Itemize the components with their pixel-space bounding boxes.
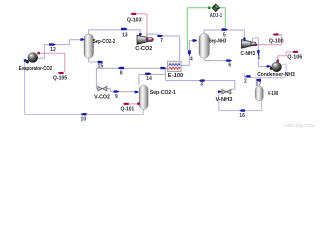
vessel Sep-CO2-1 <box>139 85 148 109</box>
arrow stream 4 adj attach <box>188 50 191 55</box>
node ADJ-1 left connection dot <box>208 7 211 10</box>
arrow stream 4 inlet port Sep-NH3 <box>192 39 197 41</box>
arrow energy Q-101 <box>123 103 129 105</box>
energy connector dot Condenser-NH3 <box>276 60 279 63</box>
wire stream 14 Sep-CO2-1 to E-100 <box>139 68 166 85</box>
wire stream 4 E-100 to Sep-NH3 <box>181 41 193 66</box>
arrow stream 14 inlet port E-100 <box>160 67 166 69</box>
svg-text:7: 7 <box>160 38 163 44</box>
compressor C-CO2 <box>137 35 154 44</box>
arrow stream 5 inlet C-NH3 <box>243 38 245 42</box>
svg-text:17: 17 <box>256 81 262 87</box>
wire stream 9 V-CO2 to Sep-CO2-1 <box>107 89 135 92</box>
arrow energy Q-103 <box>130 13 136 15</box>
heat exchanger E-100 <box>168 61 182 71</box>
arrow energy Q-100 <box>273 33 279 35</box>
svg-text:13: 13 <box>122 33 128 39</box>
svg-text:14: 14 <box>146 76 152 82</box>
svg-text:Sep-NH3: Sep-NH3 <box>209 38 226 44</box>
wire stream 15 Sep-CO2-2 bottom product <box>89 58 99 62</box>
valve V-NH3 <box>222 90 231 95</box>
svg-text:10: 10 <box>81 116 87 122</box>
arrow stream 14 <box>145 73 151 75</box>
arrow stream 3 <box>199 79 205 81</box>
arrow energy Q-106 <box>292 51 298 53</box>
arrow stream 16 <box>239 109 245 111</box>
svg-text:E-100: E-100 <box>168 73 184 79</box>
arrow stream 5 adj attach <box>222 28 228 31</box>
svg-text:5: 5 <box>223 33 226 39</box>
svg-text:16: 16 <box>239 113 245 119</box>
svg-text:Sep-CO2-2: Sep-CO2-2 <box>93 39 116 45</box>
wire stream 1 C-NH3 to Condenser-NH3 <box>253 38 267 67</box>
svg-text:C-NH3: C-NH3 <box>241 51 256 57</box>
vessel V-100 <box>255 86 263 101</box>
energy stream Q-106 line <box>278 52 292 60</box>
arrow stream 8 <box>118 67 124 69</box>
wire stream 16 V-100 to V-NH3 <box>219 92 262 111</box>
arrow stream 13 inlet C-CO2 <box>139 33 141 37</box>
energy connector dot C-CO2 <box>146 38 149 41</box>
wire stream 10 Sep-CO2-1 to Evaporator-CO2 <box>25 61 144 115</box>
wire stream 8 E-100 to V-CO2 <box>96 68 167 88</box>
arrow stream 10 inlet Evaporator-CO2 <box>24 59 28 61</box>
arrow stream 13 <box>121 28 128 30</box>
logical operator ADJ-1 diamond icon <box>212 4 220 12</box>
condenser sphere Condenser-NH3 <box>270 62 282 72</box>
svg-text:V-NH3: V-NH3 <box>216 97 233 103</box>
svg-text:1: 1 <box>258 55 261 61</box>
energy stream Q-103 line <box>136 14 147 39</box>
energy connector dot Sep-CO2-1 <box>137 102 140 105</box>
evaporator sphere Evaporator-CO2 <box>26 53 38 64</box>
arrow stream 6 <box>226 59 232 61</box>
svg-text:V-CO2: V-CO2 <box>94 94 110 100</box>
vessel Sep-NH3 <box>199 33 209 58</box>
node ADJ-1 right connection dot <box>217 7 220 10</box>
arrow stream 9 inlet port Sep-CO2-1 <box>135 91 139 93</box>
arrow stream 10 <box>81 113 87 115</box>
energy stream Q-105 line <box>40 53 65 72</box>
svg-text:Q-100: Q-100 <box>269 38 284 44</box>
svg-text:Evaporator-CO2: Evaporator-CO2 <box>19 66 52 72</box>
wire stream 13 Sep-CO2-2 to C-CO2 <box>89 30 141 35</box>
svg-text:V-100: V-100 <box>268 91 278 97</box>
arrow stream 1 inlet Condenser-NH3 <box>267 65 271 67</box>
svg-text:15: 15 <box>98 63 104 69</box>
svg-text:Sep-CO2-1: Sep-CO2-1 <box>150 90 176 96</box>
svg-text:CSDN @kjq717003: CSDN @kjq717003 <box>284 123 315 128</box>
svg-text:6: 6 <box>228 63 231 69</box>
arrow stream 15 <box>98 61 104 63</box>
wire stream 17 Condenser-NH3 to V-100 <box>244 64 286 86</box>
arrow stream 7 <box>158 35 164 37</box>
svg-text:ADJ-1: ADJ-1 <box>210 13 222 19</box>
arrow stream 2 <box>245 75 251 77</box>
svg-text:Q-106: Q-106 <box>287 54 302 60</box>
svg-text:12: 12 <box>50 47 56 53</box>
arrow stream 12 <box>49 43 56 45</box>
arrow energy Q-105 <box>58 72 64 74</box>
arrow stream 17 <box>256 79 261 81</box>
wire stream 5 Sep-NH3 to C-NH3 <box>204 30 244 38</box>
logical adjust line ADJ-1 green loop <box>187 8 225 51</box>
svg-text:Q-101: Q-101 <box>121 107 135 113</box>
svg-text:C-CO2: C-CO2 <box>135 46 152 52</box>
svg-text:Q-103: Q-103 <box>127 17 142 23</box>
svg-text:8: 8 <box>120 70 123 76</box>
svg-text:Q-105: Q-105 <box>53 76 67 82</box>
compressor C-NH3 <box>241 40 257 49</box>
wire stream 6 Sep-NH3 bottom product <box>204 58 227 61</box>
arrow stream 12 inlet port Sep-CO2-2 <box>80 38 84 40</box>
energy stream Q-100 line <box>257 35 281 45</box>
svg-text:9: 9 <box>115 94 118 100</box>
svg-text:3: 3 <box>200 81 203 87</box>
energy connector dot Evaporator-CO2 <box>37 52 40 55</box>
valve V-CO2 <box>98 86 107 91</box>
svg-text:Condenser-NH3: Condenser-NH3 <box>257 72 295 78</box>
arrow stream 16 inlet V-NH3 <box>218 91 222 93</box>
arrow stream 1 on C-NH3 outlet <box>257 50 259 55</box>
arrow stream 9 <box>114 90 120 92</box>
svg-text:4: 4 <box>190 57 193 63</box>
wire stream 3 V-NH3 to E-100 <box>165 68 234 89</box>
wire stream 7 C-CO2 to E-100 <box>146 34 179 61</box>
vessel Sep-CO2-2 <box>84 34 94 58</box>
svg-text:2: 2 <box>244 78 247 84</box>
energy stream Q-101 line <box>129 103 138 105</box>
wire stream 12 Evaporator-CO2 to Sep-CO2-2 <box>37 40 82 59</box>
